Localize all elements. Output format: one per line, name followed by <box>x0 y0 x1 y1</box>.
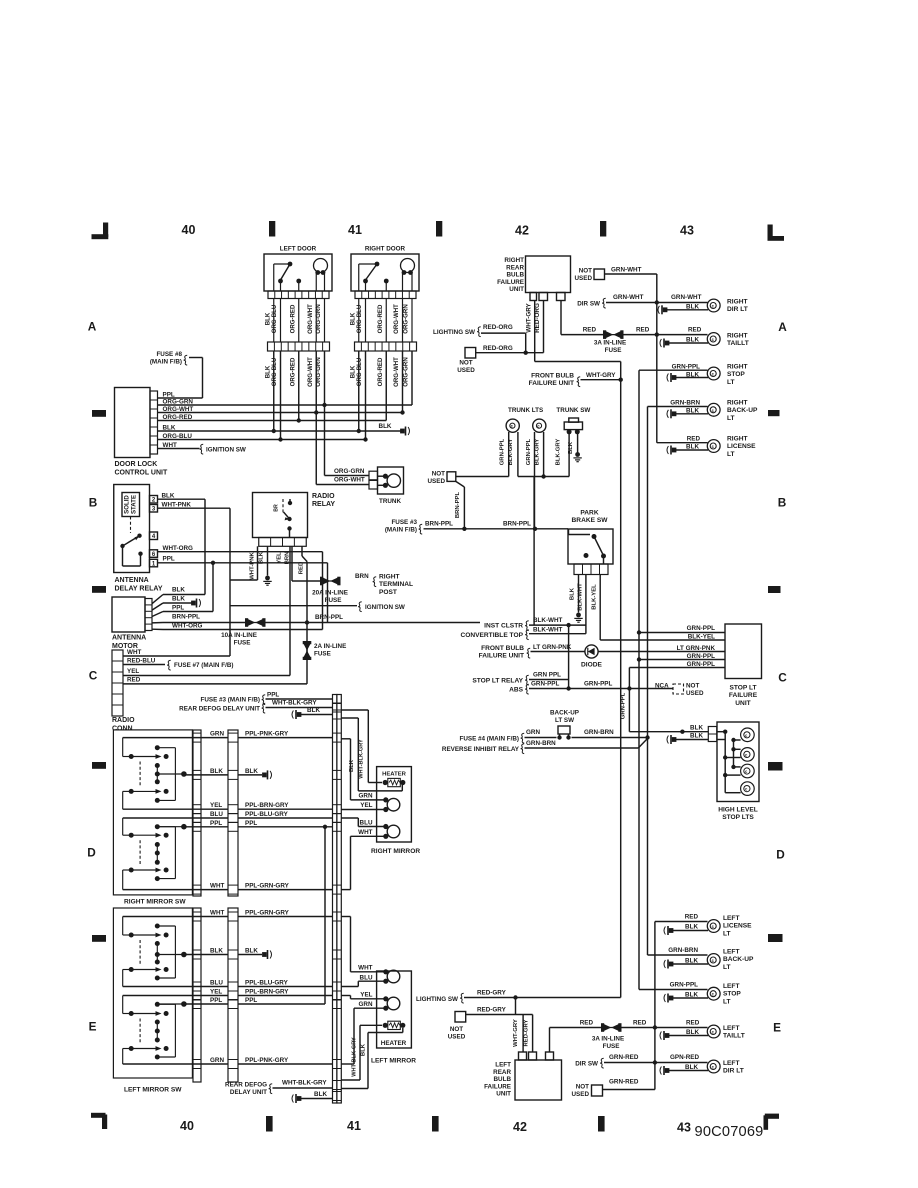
svg-text:FUSE #3: FUSE #3 <box>391 519 417 526</box>
svg-text:RED: RED <box>636 327 650 334</box>
svg-text:3A IN-LINE: 3A IN-LINE <box>594 340 626 347</box>
svg-text:BLU: BLU <box>210 811 223 818</box>
svg-text:LIGHTING SW: LIGHTING SW <box>416 996 458 1003</box>
svg-text:WHT-BLK-GRY: WHT-BLK-GRY <box>282 1080 327 1087</box>
svg-text:BLK-GRY: BLK-GRY <box>508 439 514 466</box>
svg-text:BLK: BLK <box>686 444 699 451</box>
svg-text:LT: LT <box>723 998 731 1005</box>
svg-text:BLU: BLU <box>360 820 373 827</box>
svg-text:BLK-GRY: BLK-GRY <box>556 439 562 466</box>
svg-text:LICENSE: LICENSE <box>727 443 756 450</box>
svg-text:RED-ORG: RED-ORG <box>534 303 541 333</box>
svg-text:REAR: REAR <box>493 1069 511 1076</box>
svg-text:YEL: YEL <box>277 552 283 564</box>
svg-text:WHT-BLK-GRY: WHT-BLK-GRY <box>351 1037 357 1077</box>
svg-text:FUSE: FUSE <box>314 651 331 658</box>
svg-text:PPL: PPL <box>210 997 222 1004</box>
svg-text:STOP LT: STOP LT <box>729 685 756 692</box>
svg-text:BLK-WHT: BLK-WHT <box>578 583 584 611</box>
svg-text:RED: RED <box>580 1020 594 1027</box>
svg-text:D: D <box>87 846 96 860</box>
svg-text:STOP: STOP <box>727 371 745 378</box>
svg-text:RED: RED <box>685 914 699 921</box>
svg-text:FUSE #7 (MAIN F/B): FUSE #7 (MAIN F/B) <box>174 662 233 669</box>
svg-text:FRONT BULB: FRONT BULB <box>481 645 524 652</box>
svg-text:GRN-PPL: GRN-PPL <box>687 661 715 668</box>
svg-text:RADIO: RADIO <box>112 717 135 724</box>
svg-text:HEATER: HEATER <box>381 1040 407 1047</box>
svg-text:ORG-GRN: ORG-GRN <box>334 468 365 475</box>
svg-text:RIGHT: RIGHT <box>727 364 748 371</box>
svg-text:ORG-RED: ORG-RED <box>377 304 384 333</box>
svg-text:GRN-PPL: GRN-PPL <box>500 438 506 465</box>
svg-text:ORG-GRN: ORG-GRN <box>403 357 410 386</box>
svg-text:GRN-PPL: GRN-PPL <box>672 364 700 371</box>
svg-text:FAILURE UNIT: FAILURE UNIT <box>529 380 574 387</box>
svg-text:FAILURE: FAILURE <box>497 279 524 286</box>
svg-text:NOT: NOT <box>576 1084 589 1091</box>
svg-text:RED: RED <box>583 327 597 334</box>
svg-text:C: C <box>778 671 787 685</box>
svg-text:BACK-UP: BACK-UP <box>727 407 758 414</box>
svg-text:PPL-BLU-GRY: PPL-BLU-GRY <box>245 811 289 818</box>
svg-text:LT SW: LT SW <box>555 717 574 724</box>
svg-text:ORG-BLU: ORG-BLU <box>356 304 363 333</box>
svg-text:FUSE #3 (MAIN F/B): FUSE #3 (MAIN F/B) <box>201 697 260 704</box>
svg-text:BLK: BLK <box>685 924 698 931</box>
svg-text:WHT-PNK: WHT-PNK <box>162 502 192 509</box>
svg-text:BLK: BLK <box>172 587 185 594</box>
svg-text:LICENSE: LICENSE <box>723 923 752 930</box>
svg-text:GRN-WHT: GRN-WHT <box>611 267 642 274</box>
svg-text:BLK: BLK <box>685 1064 698 1071</box>
svg-text:BACK-UP: BACK-UP <box>550 710 579 717</box>
svg-text:IGNITION SW: IGNITION SW <box>365 604 405 611</box>
svg-text:LEFT: LEFT <box>723 983 739 990</box>
svg-text:RELAY: RELAY <box>312 501 335 508</box>
svg-text:POST: POST <box>379 589 397 596</box>
svg-text:PPL-GRN-GRY: PPL-GRN-GRY <box>245 883 290 890</box>
svg-text:UNIT: UNIT <box>735 700 750 707</box>
svg-text:PPL-PNK-GRY: PPL-PNK-GRY <box>245 731 289 738</box>
svg-text:ORG-WHT: ORG-WHT <box>307 357 314 387</box>
svg-text:BLK-WHT: BLK-WHT <box>533 627 563 634</box>
svg-text:42: 42 <box>515 224 529 238</box>
svg-text:42: 42 <box>513 1120 527 1134</box>
svg-text:ORG-RED: ORG-RED <box>163 414 193 421</box>
svg-text:ANTENNA: ANTENNA <box>112 635 146 642</box>
svg-text:41: 41 <box>348 223 362 237</box>
svg-text:LEFT: LEFT <box>723 949 739 956</box>
svg-text:BRN: BRN <box>284 552 290 565</box>
svg-text:GRN-RED: GRN-RED <box>609 1054 639 1061</box>
svg-text:RED-ORG: RED-ORG <box>483 324 513 331</box>
svg-text:ABS: ABS <box>509 687 524 694</box>
svg-text:LT GRN-PNK: LT GRN-PNK <box>677 645 716 652</box>
svg-text:FRONT BULB: FRONT BULB <box>531 373 574 380</box>
svg-text:WHT-BLK-GRY: WHT-BLK-GRY <box>358 739 364 779</box>
svg-text:TRUNK LTS: TRUNK LTS <box>508 407 543 414</box>
svg-text:A: A <box>778 320 787 334</box>
svg-text:FUSE: FUSE <box>605 347 622 354</box>
svg-text:HEATER: HEATER <box>382 772 407 778</box>
svg-text:LT: LT <box>723 964 731 971</box>
svg-text:ORG-BLU: ORG-BLU <box>163 433 193 440</box>
svg-text:RIGHT: RIGHT <box>727 333 748 340</box>
svg-text:ORG-WHT: ORG-WHT <box>163 406 194 413</box>
svg-text:GRN-BRN: GRN-BRN <box>668 947 698 954</box>
svg-text:RIGHT: RIGHT <box>504 257 524 264</box>
svg-text:DELAY UNIT: DELAY UNIT <box>230 1089 267 1096</box>
svg-text:E: E <box>89 1020 97 1034</box>
svg-text:PPL: PPL <box>245 820 257 827</box>
svg-text:SOLID: SOLID <box>124 495 131 514</box>
svg-text:TERMINAL: TERMINAL <box>379 581 413 588</box>
svg-text:LT: LT <box>727 415 735 422</box>
svg-text:GRN: GRN <box>210 731 224 738</box>
svg-text:USED: USED <box>457 367 475 374</box>
svg-text:D: D <box>776 848 785 862</box>
svg-text:BRN-PPL: BRN-PPL <box>315 614 343 621</box>
svg-text:RIGHT: RIGHT <box>727 299 748 306</box>
svg-text:YEL: YEL <box>360 802 372 809</box>
svg-text:RIGHT MIRROR: RIGHT MIRROR <box>371 848 420 855</box>
svg-text:BLK: BLK <box>360 1043 366 1056</box>
svg-text:USED: USED <box>575 275 593 282</box>
svg-text:RIGHT: RIGHT <box>727 436 748 443</box>
svg-text:BLK: BLK <box>172 596 185 603</box>
svg-text:FAILURE UNIT: FAILURE UNIT <box>479 653 524 660</box>
svg-text:LT: LT <box>723 930 731 937</box>
svg-text:RED-GRY: RED-GRY <box>477 1007 507 1014</box>
svg-text:ORG-BLU: ORG-BLU <box>271 357 278 386</box>
svg-text:YEL: YEL <box>360 992 372 999</box>
svg-text:RED-BLU: RED-BLU <box>127 658 156 665</box>
svg-text:BLK: BLK <box>570 587 576 600</box>
svg-text:CONVERTIBLE TOP: CONVERTIBLE TOP <box>460 632 523 639</box>
svg-text:WHT-PNK: WHT-PNK <box>250 552 256 580</box>
svg-text:GRN-PPL: GRN-PPL <box>526 438 532 465</box>
svg-text:20A IN-LINE: 20A IN-LINE <box>312 590 348 597</box>
svg-text:ORG-WHT: ORG-WHT <box>334 477 365 484</box>
svg-text:PPL: PPL <box>163 556 175 563</box>
svg-text:CONN: CONN <box>112 726 133 733</box>
svg-text:NCA: NCA <box>655 683 669 690</box>
svg-text:REAR DEFOG DELAY UNIT: REAR DEFOG DELAY UNIT <box>179 706 260 713</box>
svg-text:BLK: BLK <box>686 408 699 415</box>
svg-text:BLK: BLK <box>686 372 699 379</box>
svg-text:RED: RED <box>633 1020 647 1027</box>
svg-text:RED: RED <box>687 436 701 443</box>
svg-text:RADIO: RADIO <box>312 493 335 500</box>
svg-text:BLK: BLK <box>259 551 265 564</box>
svg-text:LEFT: LEFT <box>723 1060 739 1067</box>
svg-text:90C07069: 90C07069 <box>695 1124 764 1140</box>
svg-text:USED: USED <box>572 1091 590 1098</box>
svg-text:ORG-WHT: ORG-WHT <box>307 304 314 334</box>
svg-text:GRN-WHT: GRN-WHT <box>671 294 702 301</box>
svg-text:BLK: BLK <box>685 992 698 999</box>
svg-text:REAR: REAR <box>506 264 524 271</box>
svg-text:YEL: YEL <box>210 802 222 809</box>
svg-text:NOT: NOT <box>450 1026 463 1033</box>
svg-text:BLK: BLK <box>210 768 223 775</box>
svg-text:DIODE: DIODE <box>581 662 602 669</box>
svg-text:BLK: BLK <box>690 733 703 740</box>
svg-text:LEFT: LEFT <box>723 1025 739 1032</box>
svg-text:UNIT: UNIT <box>496 1091 511 1098</box>
svg-text:LT: LT <box>727 379 735 386</box>
svg-text:ORG-BLU: ORG-BLU <box>356 357 363 386</box>
svg-text:NOT: NOT <box>686 683 699 690</box>
svg-text:BLK-WHT: BLK-WHT <box>533 617 563 624</box>
svg-text:USED: USED <box>448 1034 466 1041</box>
svg-text:BR: BR <box>274 504 280 512</box>
svg-text:E: E <box>773 1021 781 1035</box>
svg-text:PPL-GRN-GRY: PPL-GRN-GRY <box>245 910 290 917</box>
svg-text:DOOR LOCK: DOOR LOCK <box>115 461 158 468</box>
svg-text:BLK: BLK <box>686 337 699 344</box>
svg-text:PPL: PPL <box>210 820 222 827</box>
svg-text:BLK: BLK <box>162 493 175 500</box>
svg-text:NOT: NOT <box>579 268 592 275</box>
svg-text:BLK: BLK <box>307 707 320 714</box>
svg-text:RED: RED <box>688 327 702 334</box>
svg-text:FUSE: FUSE <box>325 597 342 604</box>
svg-text:RIGHT MIRROR SW: RIGHT MIRROR SW <box>124 899 186 906</box>
svg-text:YEL: YEL <box>210 989 222 996</box>
svg-text:BLK: BLK <box>314 1091 327 1098</box>
svg-text:PPL-PNK-GRY: PPL-PNK-GRY <box>245 1057 289 1064</box>
svg-text:PPL: PPL <box>163 392 175 399</box>
svg-text:FAILURE: FAILURE <box>484 1083 511 1090</box>
svg-text:LEFT: LEFT <box>495 1062 511 1069</box>
svg-text:WHT-ORG: WHT-ORG <box>172 623 203 630</box>
svg-text:BRN: BRN <box>355 573 369 580</box>
svg-text:ORG-WHT: ORG-WHT <box>393 304 400 334</box>
svg-text:GRN-BRN: GRN-BRN <box>526 740 556 747</box>
svg-text:PPL: PPL <box>267 692 279 699</box>
svg-text:GRN-WHT: GRN-WHT <box>613 294 644 301</box>
svg-text:BLK-YEL: BLK-YEL <box>592 584 598 610</box>
svg-text:GRN-PPL: GRN-PPL <box>687 625 715 632</box>
svg-text:NOT: NOT <box>459 360 472 367</box>
svg-text:DIR SW: DIR SW <box>577 301 600 308</box>
svg-text:DIR LT: DIR LT <box>723 1068 744 1075</box>
svg-text:ORG-GRN: ORG-GRN <box>315 304 322 333</box>
svg-text:TAILLT: TAILLT <box>723 1033 745 1040</box>
svg-text:GRN-PPL: GRN-PPL <box>584 681 612 688</box>
svg-text:LIGHTING SW: LIGHTING SW <box>433 329 475 336</box>
svg-text:B: B <box>89 496 98 510</box>
svg-text:40: 40 <box>180 1119 194 1133</box>
svg-text:BACK-UP: BACK-UP <box>723 956 754 963</box>
svg-text:RED-ORG: RED-ORG <box>483 345 513 352</box>
svg-text:STOP LT RELAY: STOP LT RELAY <box>472 678 523 685</box>
svg-text:PPL-BLU-GRY: PPL-BLU-GRY <box>245 980 289 987</box>
svg-text:ORG-RED: ORG-RED <box>289 357 296 386</box>
svg-text:HIGH LEVEL: HIGH LEVEL <box>718 807 758 814</box>
svg-text:A: A <box>88 320 97 334</box>
svg-text:YEL: YEL <box>127 668 139 675</box>
svg-text:BLK: BLK <box>379 423 392 430</box>
svg-text:BLK-GRY: BLK-GRY <box>534 439 540 466</box>
svg-text:TAILLT: TAILLT <box>727 340 749 347</box>
svg-text:WHT: WHT <box>163 442 177 449</box>
svg-text:FUSE: FUSE <box>234 640 251 647</box>
svg-text:BRN-PPL: BRN-PPL <box>172 614 200 621</box>
svg-text:41: 41 <box>347 1119 361 1133</box>
svg-text:BRN-PPL: BRN-PPL <box>455 492 461 519</box>
svg-text:BLK: BLK <box>163 425 176 432</box>
svg-text:BLK: BLK <box>686 304 699 311</box>
svg-text:FAILURE: FAILURE <box>729 692 758 699</box>
svg-text:LEFT: LEFT <box>723 915 739 922</box>
svg-text:PPL-BRN-GRY: PPL-BRN-GRY <box>245 989 289 996</box>
svg-text:RED-GRY: RED-GRY <box>523 1019 529 1046</box>
svg-text:WHT: WHT <box>358 965 372 972</box>
svg-text:STOP LTS: STOP LTS <box>722 814 754 821</box>
svg-text:C: C <box>89 669 98 683</box>
svg-text:BLK: BLK <box>568 441 574 454</box>
svg-text:RIGHT: RIGHT <box>727 400 748 407</box>
svg-text:FUSE #8: FUSE #8 <box>156 351 182 358</box>
svg-text:RED: RED <box>127 677 141 684</box>
svg-text:GRN-PPL: GRN-PPL <box>687 653 715 660</box>
svg-text:IGNITION SW: IGNITION SW <box>206 447 246 454</box>
svg-text:NOT: NOT <box>432 471 445 478</box>
svg-text:ORG-RED: ORG-RED <box>377 357 384 386</box>
svg-text:LT GRN-PNK: LT GRN-PNK <box>533 644 572 651</box>
svg-text:WHT-GRY: WHT-GRY <box>513 1019 519 1047</box>
svg-text:BULB: BULB <box>494 1076 512 1083</box>
svg-text:UNIT: UNIT <box>509 286 524 293</box>
svg-text:10A IN-LINE: 10A IN-LINE <box>221 632 257 639</box>
svg-text:USED: USED <box>428 478 446 485</box>
svg-text:PPL-BRN-GRY: PPL-BRN-GRY <box>245 802 289 809</box>
svg-text:43: 43 <box>680 224 694 238</box>
svg-text:STOP: STOP <box>723 991 741 998</box>
svg-text:GPN-RED: GPN-RED <box>670 1054 699 1061</box>
svg-text:WHT-GRY: WHT-GRY <box>586 372 616 379</box>
svg-text:GRN: GRN <box>210 1057 224 1064</box>
svg-text:GRN-PPL: GRN-PPL <box>531 681 559 688</box>
svg-text:BLK-YEL: BLK-YEL <box>688 634 715 641</box>
svg-text:ORG-BLU: ORG-BLU <box>271 304 278 333</box>
svg-text:PPL: PPL <box>245 997 257 1004</box>
svg-text:BLU: BLU <box>210 980 223 987</box>
svg-text:REVERSE INHIBIT RELAY: REVERSE INHIBIT RELAY <box>442 746 520 753</box>
svg-text:ORG-GRN: ORG-GRN <box>163 399 194 406</box>
svg-text:LEFT DOOR: LEFT DOOR <box>280 246 317 253</box>
svg-text:LT: LT <box>727 451 735 458</box>
svg-text:DIR SW: DIR SW <box>575 1061 598 1068</box>
svg-text:ANTENNA: ANTENNA <box>115 577 149 584</box>
svg-text:WHT: WHT <box>210 910 224 917</box>
svg-text:ORG-RED: ORG-RED <box>289 304 296 333</box>
svg-text:WHT: WHT <box>210 883 224 890</box>
svg-text:WHT-ORG: WHT-ORG <box>163 545 194 552</box>
svg-text:LEFT MIRROR: LEFT MIRROR <box>371 1058 416 1065</box>
svg-text:GRN: GRN <box>359 1001 373 1008</box>
svg-text:BLK: BLK <box>245 948 258 955</box>
svg-text:BRAKE SW: BRAKE SW <box>572 517 609 524</box>
svg-text:RED: RED <box>686 1020 700 1027</box>
svg-text:GRN-RED: GRN-RED <box>609 1079 639 1086</box>
svg-text:3A IN-LINE: 3A IN-LINE <box>592 1036 624 1043</box>
svg-text:REAR DEFOG: REAR DEFOG <box>225 1082 267 1089</box>
svg-text:RIGHT DOOR: RIGHT DOOR <box>365 246 406 253</box>
svg-text:B: B <box>778 496 787 510</box>
svg-text:BLU: BLU <box>360 975 373 982</box>
svg-text:STATE: STATE <box>131 495 138 514</box>
svg-text:WHT: WHT <box>358 829 372 836</box>
svg-text:GRN-BRN: GRN-BRN <box>670 400 700 407</box>
svg-text:PARK: PARK <box>580 510 598 517</box>
svg-text:BLK: BLK <box>686 1029 699 1036</box>
svg-text:BLK: BLK <box>245 768 258 775</box>
svg-text:BLK: BLK <box>210 948 223 955</box>
svg-text:ORG-GRN: ORG-GRN <box>403 304 410 333</box>
svg-text:BULB: BULB <box>507 272 525 279</box>
svg-text:RED: RED <box>298 562 304 574</box>
svg-text:(MAIN F/B): (MAIN F/B) <box>150 359 182 366</box>
svg-text:BLK: BLK <box>685 958 698 965</box>
svg-text:RED-GRY: RED-GRY <box>477 990 507 997</box>
svg-text:LEFT MIRROR SW: LEFT MIRROR SW <box>124 1087 182 1094</box>
svg-text:USED: USED <box>686 690 704 697</box>
svg-text:ORG-WHT: ORG-WHT <box>393 357 400 387</box>
svg-text:INST CLSTR: INST CLSTR <box>484 623 523 630</box>
svg-text:BLK: BLK <box>690 725 703 732</box>
svg-text:TRUNK SW: TRUNK SW <box>556 407 590 414</box>
svg-text:40: 40 <box>182 223 196 237</box>
svg-text:BRN-PPL: BRN-PPL <box>425 521 453 528</box>
svg-text:(MAIN F/B): (MAIN F/B) <box>385 527 417 534</box>
svg-text:GRN PPL: GRN PPL <box>533 672 561 679</box>
svg-text:2A IN-LINE: 2A IN-LINE <box>314 643 346 650</box>
svg-text:PPL: PPL <box>172 605 184 612</box>
svg-text:DIR LT: DIR LT <box>727 306 748 313</box>
svg-text:GRN: GRN <box>526 729 540 736</box>
svg-text:WHT-GRY: WHT-GRY <box>526 302 533 332</box>
svg-text:43: 43 <box>677 1121 691 1135</box>
svg-text:GRN-PPL: GRN-PPL <box>670 982 698 989</box>
svg-text:FUSE: FUSE <box>603 1043 620 1050</box>
svg-text:BRN-PPL: BRN-PPL <box>503 521 531 528</box>
svg-text:DELAY RELAY: DELAY RELAY <box>115 586 163 593</box>
svg-text:WHT-BLK-GRY: WHT-BLK-GRY <box>272 700 317 707</box>
svg-text:GRN: GRN <box>359 793 373 800</box>
svg-text:GRN-BRN: GRN-BRN <box>584 729 614 736</box>
svg-text:TRUNK: TRUNK <box>379 498 401 505</box>
svg-text:FUSE #4 (MAIN F/B): FUSE #4 (MAIN F/B) <box>460 736 519 743</box>
svg-text:CONTROL UNIT: CONTROL UNIT <box>115 470 168 477</box>
svg-text:WHT: WHT <box>127 649 141 656</box>
svg-text:RIGHT: RIGHT <box>379 574 400 581</box>
